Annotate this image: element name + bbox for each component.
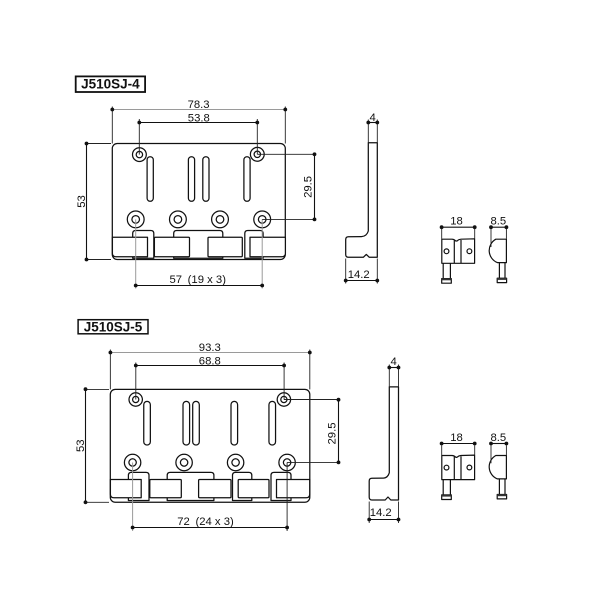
svg-text:18: 18 (450, 432, 463, 444)
svg-text:68.8: 68.8 (199, 355, 221, 367)
svg-text:8.5: 8.5 (490, 216, 506, 228)
svg-text:53: 53 (75, 439, 87, 452)
svg-text:53: 53 (76, 195, 88, 208)
svg-text:29.5: 29.5 (303, 176, 315, 198)
svg-text:8.5: 8.5 (490, 432, 506, 444)
svg-text:57 (19 x 3): 57 (19 x 3) (169, 274, 226, 286)
svg-text:14.2: 14.2 (348, 269, 370, 281)
svg-text:4: 4 (390, 356, 396, 368)
svg-text:J510SJ-4: J510SJ-4 (81, 77, 140, 92)
svg-text:14.2: 14.2 (370, 507, 392, 519)
svg-text:78.3: 78.3 (188, 99, 210, 111)
svg-text:93.3: 93.3 (199, 342, 221, 354)
svg-text:18: 18 (450, 216, 463, 228)
svg-text:53.8: 53.8 (188, 113, 210, 125)
svg-text:29.5: 29.5 (327, 423, 339, 445)
svg-text:J510SJ-5: J510SJ-5 (84, 319, 143, 334)
svg-text:72 (24 x 3): 72 (24 x 3) (177, 516, 234, 528)
svg-text:4: 4 (370, 112, 376, 124)
